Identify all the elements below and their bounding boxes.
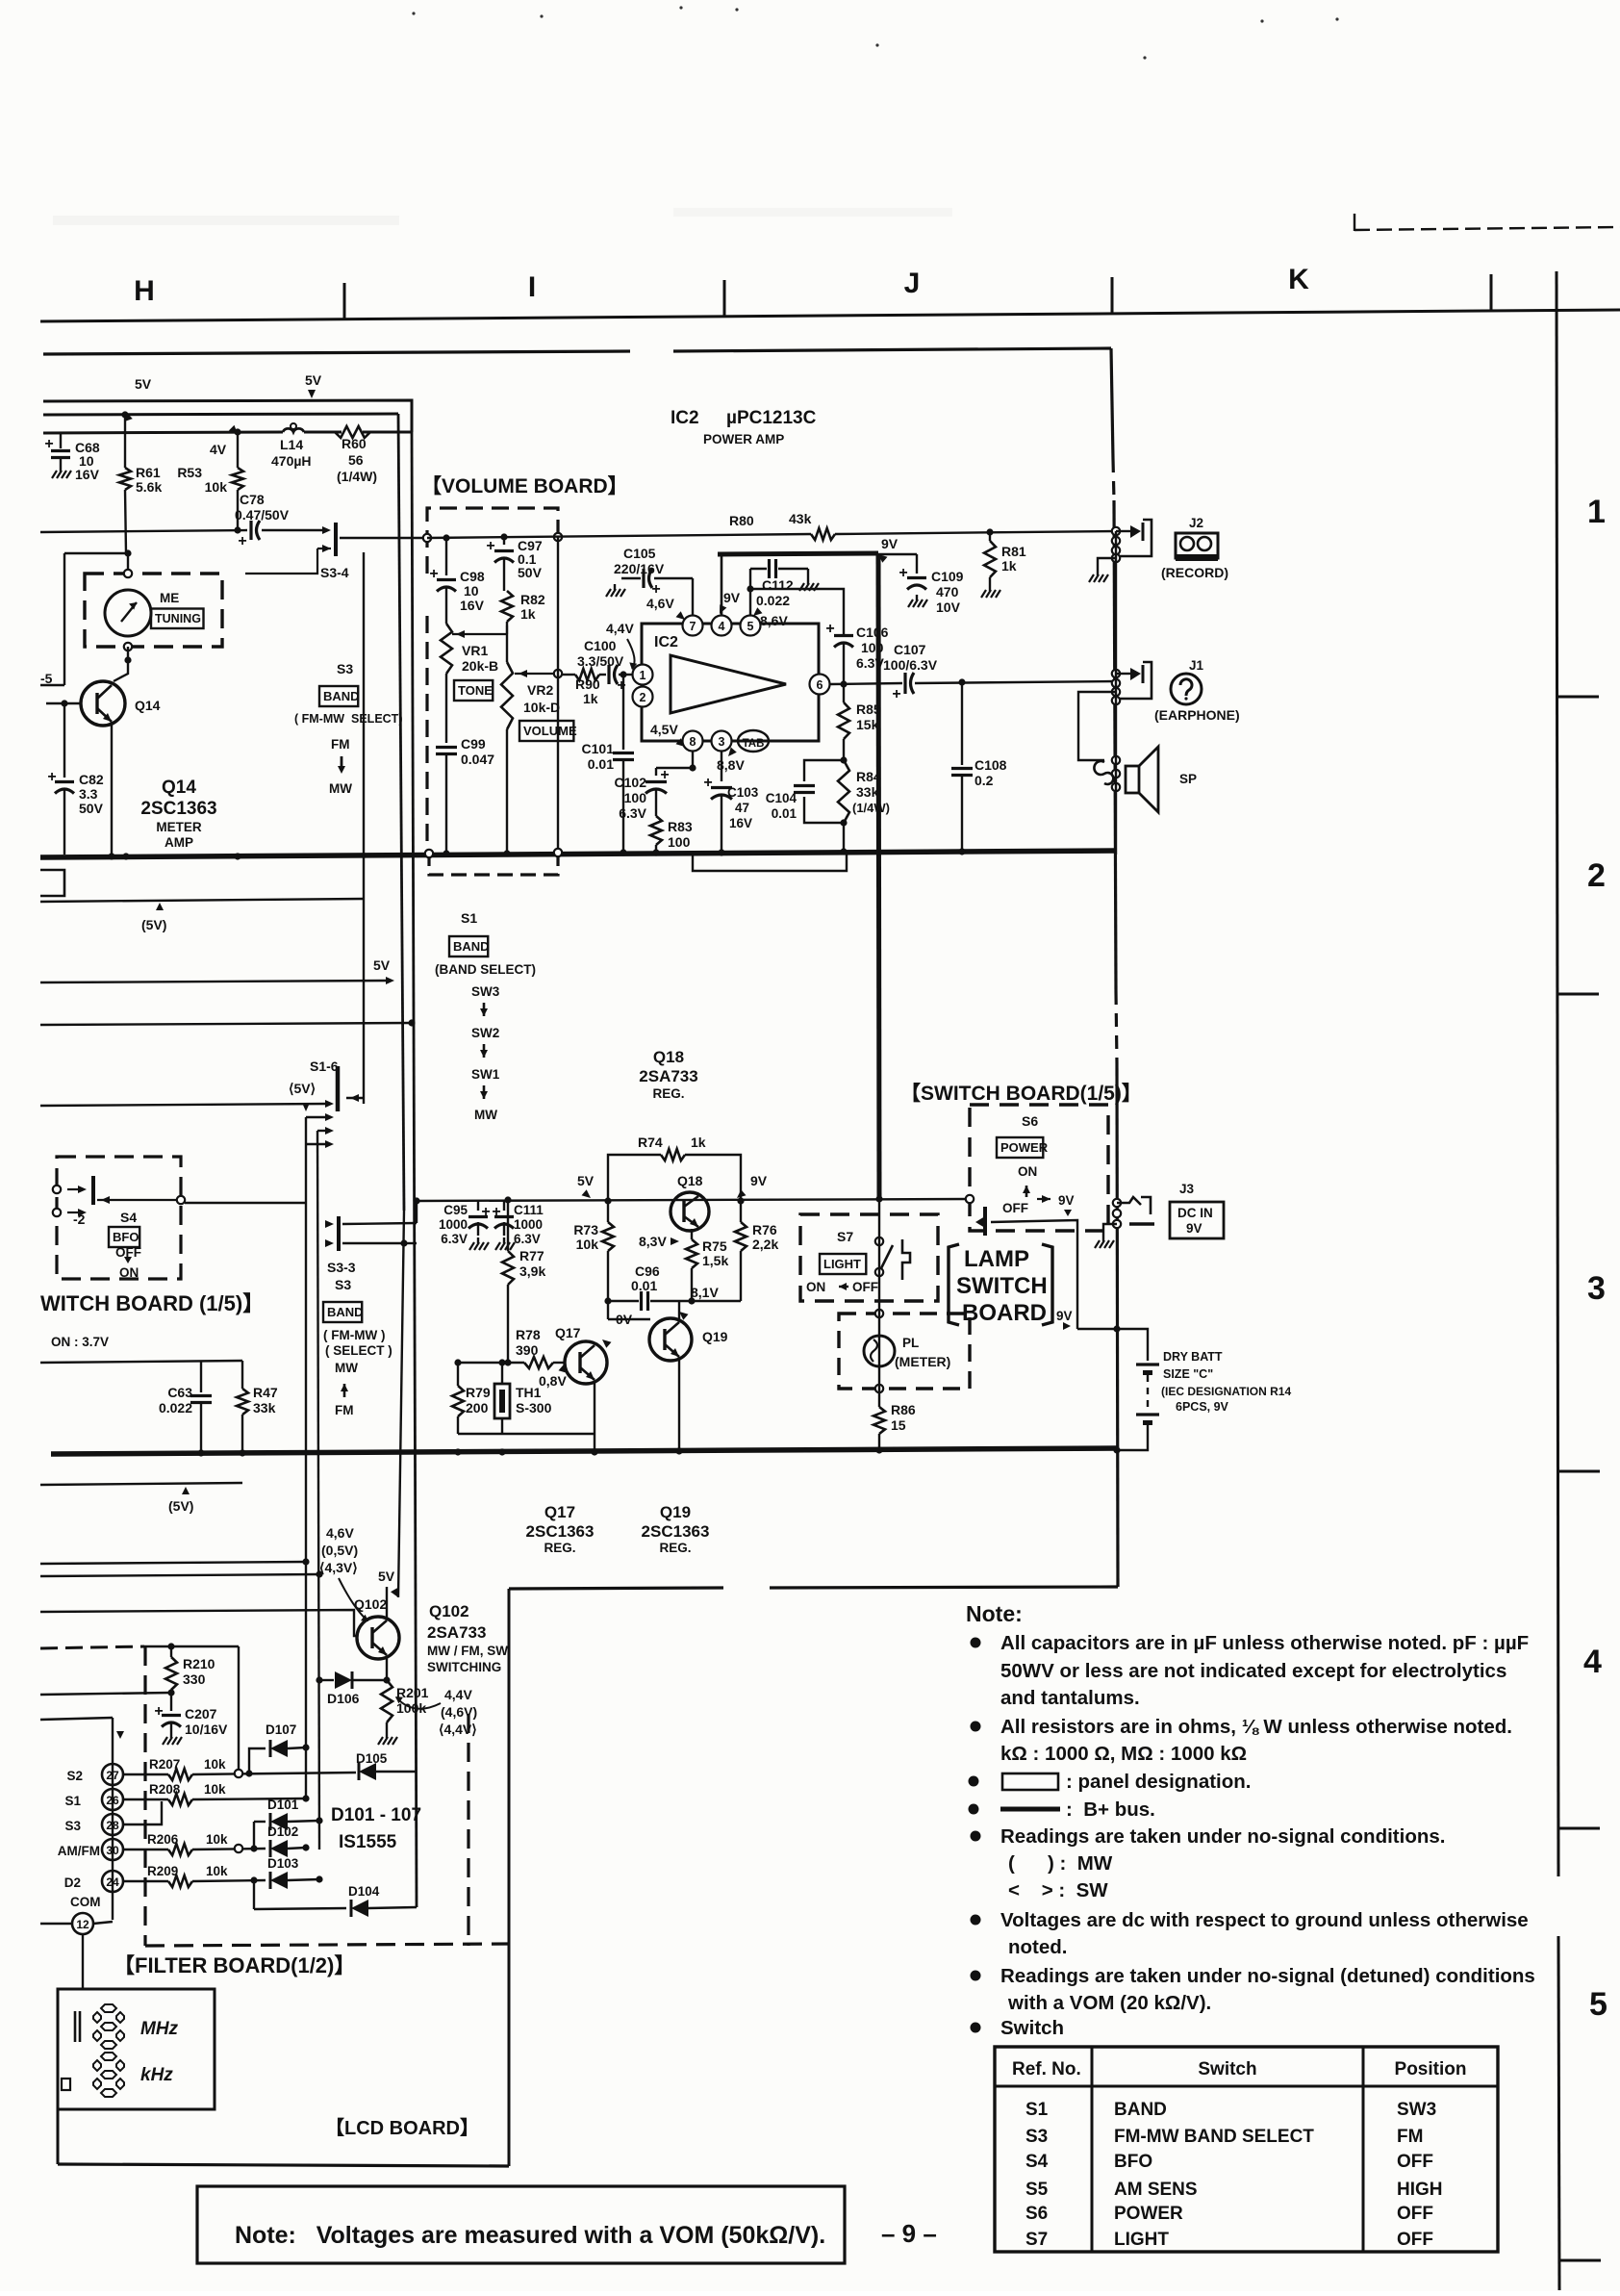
grid letter H (134, 275, 155, 307)
switch S6 (966, 1195, 1077, 1329)
resistor R78 (508, 1357, 553, 1368)
svg-text:390: 390 (516, 1342, 539, 1358)
svg-text:(EARPHONE): (EARPHONE) (1154, 707, 1240, 723)
label J3 (1179, 1182, 1195, 1196)
svg-text:2SC1363: 2SC1363 (526, 1522, 595, 1541)
svg-text:ME: ME (160, 591, 179, 605)
note b6 l2 (1008, 1936, 1068, 1958)
page number (881, 2219, 937, 2248)
wire S7-PL rail (875, 1195, 882, 1407)
svg-text:8: 8 (690, 735, 696, 749)
boxed POWER (997, 1137, 1049, 1158)
label C108 0.2 (975, 757, 1007, 788)
svg-text:Q102: Q102 (354, 1596, 387, 1612)
wire pin5 to C106 (0, 0, 1, 1)
ground C95 (469, 1237, 489, 1250)
schematic bottom-right boundary wire (509, 1587, 1118, 1589)
ground C207 (163, 1732, 182, 1745)
table hdr Position (1395, 2059, 1467, 2079)
label C99 0.047 (461, 736, 494, 767)
svg-text:OFF: OFF (1002, 1201, 1028, 1215)
svg-text:R75: R75 (702, 1238, 727, 1254)
svg-text:µPC1213C: µPC1213C (726, 408, 817, 428)
svg-text:【SWITCH BOARD(1/5)】: 【SWITCH BOARD(1/5)】 (900, 1083, 1142, 1105)
label C102 100 6.3V (615, 775, 647, 821)
potentiometer VR1 (441, 624, 452, 739)
label J1 (1189, 658, 1204, 673)
label C100 3.3/50V (577, 638, 624, 669)
svg-text:kΩ : 1000 Ω, MΩ : 1000 kΩ: kΩ : 1000 Ω, MΩ : 1000 kΩ (1000, 1743, 1247, 1765)
capacitor C106 (825, 621, 853, 684)
svg-text:10/16V: 10/16V (185, 1722, 228, 1737)
svg-text:3: 3 (719, 735, 725, 749)
svg-text:IS1555: IS1555 (339, 1832, 397, 1852)
resistor R77 (502, 1196, 514, 1365)
svg-text:0.01: 0.01 (588, 756, 614, 772)
meter node top (124, 553, 132, 577)
svg-text:56: 56 (348, 452, 364, 468)
label 5V h1063 (373, 957, 391, 973)
svg-text:S1: S1 (461, 910, 477, 926)
svg-text:S4: S4 (1025, 2152, 1049, 2172)
capacitor C97 (486, 537, 514, 591)
svg-text:S3: S3 (335, 1277, 351, 1292)
svg-text:BAND: BAND (1114, 2100, 1167, 2120)
wire 9V main h (413, 1197, 970, 1223)
svg-text:6.3V: 6.3V (619, 805, 646, 821)
svg-text:R206: R206 (147, 1832, 179, 1847)
svg-text:24: 24 (106, 1875, 119, 1889)
svg-text:16V: 16V (729, 816, 752, 830)
label LAMP SWITCH BOARD (949, 1244, 1052, 1326)
label FM S3 (335, 1403, 354, 1417)
ground bus junctions (197, 1446, 882, 1456)
resistor R76 (735, 1201, 747, 1301)
svg-text:noted.: noted. (1008, 1936, 1068, 1958)
ground J3 (1095, 1224, 1117, 1248)
svg-text:S5: S5 (1025, 2180, 1049, 2200)
svg-text:OFF: OFF (852, 1280, 878, 1294)
svg-text:(5V): (5V) (141, 917, 166, 932)
label (5V) a (141, 903, 166, 932)
wire q19 coll (678, 1301, 680, 1321)
svg-text:S1-6: S1-6 (310, 1059, 339, 1074)
svg-text:Voltages are dc with respect t: Voltages are dc with respect to ground u… (1000, 1909, 1529, 1931)
svg-text:+: + (238, 533, 246, 549)
transistor Q102 (357, 1617, 399, 1659)
wire C102 link (656, 764, 696, 771)
label R74 1k (638, 1135, 706, 1150)
table row S5 (1025, 2180, 1443, 2200)
label D104 (348, 1884, 380, 1899)
wire q17 emit (594, 1382, 595, 1450)
svg-text:8,3V: 8,3V (639, 1234, 667, 1249)
svg-text:S3: S3 (337, 661, 353, 676)
svg-text:C102: C102 (615, 775, 647, 790)
resistor R47 (237, 1389, 248, 1452)
label 9V pin4 (720, 590, 741, 614)
capacitor C78 (238, 521, 260, 549)
svg-text:+: + (899, 565, 907, 581)
svg-text:MW: MW (329, 781, 352, 796)
label 0.8V (539, 1365, 568, 1389)
label C78 0.47/50V (235, 492, 290, 523)
label Q14 2SC1363 METER AMP (140, 778, 216, 850)
svg-text:REG.: REG. (659, 1541, 691, 1555)
wire h1019 (40, 977, 394, 984)
schematic right boundary wire (1111, 348, 1118, 1587)
svg-text:Switch: Switch (1198, 2059, 1256, 2079)
svg-text:FM: FM (335, 1403, 354, 1417)
lcd display box (58, 1989, 215, 2109)
capacitor C95 (468, 1200, 491, 1236)
svg-text:+: + (486, 538, 494, 554)
label R86 15 (891, 1402, 916, 1433)
svg-text:5V: 5V (378, 1569, 395, 1584)
svg-text:DRY BATT: DRY BATT (1163, 1350, 1223, 1364)
meter node bottom (114, 643, 132, 681)
svg-text:R210: R210 (183, 1656, 215, 1671)
label ME (160, 591, 179, 605)
junction C97 top (500, 533, 507, 540)
right tick row3-4 (1558, 1470, 1600, 1473)
switch table header line (995, 2085, 1498, 2088)
svg-text:TH1: TH1 (516, 1385, 542, 1400)
lcd dot (62, 2079, 70, 2090)
svg-text:33k: 33k (253, 1400, 276, 1416)
label R73 10k (573, 1222, 598, 1252)
capacitor C98 (429, 538, 456, 624)
label J2 (1189, 516, 1203, 530)
note b7 l2 (1007, 1992, 1211, 2014)
lcd digit partial (75, 2011, 80, 2042)
svg-text:10V: 10V (936, 600, 961, 615)
bottom note box (197, 2186, 845, 2263)
svg-text:6PCS, 9V: 6PCS, 9V (1176, 1400, 1229, 1414)
svg-text:10k: 10k (576, 1237, 599, 1252)
svg-text:S3: S3 (64, 1819, 81, 1833)
svg-text:R84: R84 (856, 769, 881, 784)
svg-text:Q17: Q17 (544, 1503, 575, 1521)
svg-text:S3-4: S3-4 (320, 565, 349, 580)
svg-text:MW / FM, SW: MW / FM, SW (427, 1644, 508, 1658)
svg-text:Q19: Q19 (660, 1503, 691, 1521)
right tick bottom (1559, 2259, 1601, 2262)
svg-text:H: H (134, 275, 155, 307)
svg-text:100: 100 (861, 640, 884, 655)
svg-text:28: 28 (106, 1819, 119, 1832)
row number 4 (1583, 1644, 1602, 1680)
boxed BFO (109, 1227, 139, 1247)
svg-text:C98: C98 (460, 569, 485, 584)
svg-text:【FILTER BOARD(1/2)】: 【FILTER BOARD(1/2)】 (114, 1953, 355, 1977)
svg-text:SP: SP (1179, 772, 1197, 786)
diode D105 (359, 1763, 417, 1780)
wire q17 coll (608, 1301, 650, 1319)
svg-text:100: 100 (624, 790, 647, 805)
grid tick top 2 (723, 280, 726, 316)
label 4.6V (646, 596, 685, 620)
table row S3 (1025, 2127, 1423, 2147)
svg-text:S7: S7 (837, 1229, 853, 1244)
top-right corner mark (1354, 214, 1620, 231)
label R84 33k (1/4W) (852, 769, 890, 815)
svg-text:3,9k: 3,9k (519, 1263, 545, 1279)
svg-text:COM: COM (70, 1895, 101, 1909)
junction pin1 (620, 671, 626, 677)
svg-text:S6: S6 (1025, 2204, 1048, 2224)
svg-text:R79: R79 (466, 1385, 491, 1400)
svg-text:ON: ON (806, 1280, 825, 1294)
wire h1147 (40, 1104, 328, 1106)
lamp box PL (839, 1314, 970, 1389)
right tick row2-3 (1557, 993, 1599, 996)
label 8.3V (639, 1234, 679, 1249)
svg-text:50V: 50V (79, 801, 104, 816)
ground C109 (908, 595, 927, 607)
label R83 100 (668, 819, 693, 850)
svg-text:J: J (904, 268, 921, 299)
label C95 1000 6.3V (439, 1203, 468, 1246)
svg-text:FM-MW BAND SELECT: FM-MW BAND SELECT (1114, 2127, 1314, 2147)
capacitor C103 (703, 752, 732, 851)
wire q18 wires (604, 1297, 741, 1304)
svg-text:OFF: OFF (1397, 2230, 1433, 2250)
svg-text:2: 2 (1587, 857, 1606, 894)
svg-text:PL: PL (902, 1336, 919, 1350)
ground bus (51, 1448, 1117, 1454)
svg-text:4: 4 (1583, 1644, 1602, 1680)
label 5V q102 (378, 1569, 398, 1597)
wire r79 th1 gnd (458, 1363, 595, 1434)
junction pin6 (840, 680, 847, 687)
note b3 (969, 1771, 1252, 1793)
label D107 (266, 1722, 296, 1737)
label (EARPHONE) (1154, 707, 1240, 723)
label 9V at bus (878, 536, 899, 563)
label R47 33k (253, 1385, 278, 1416)
pin S1 26 (64, 1789, 123, 1810)
capacitor C99 (436, 739, 457, 851)
label R81 1k (1001, 544, 1026, 574)
transistor Q18 (671, 1192, 709, 1231)
wire Q14 emitter (111, 722, 113, 855)
svg-text:1000: 1000 (514, 1217, 543, 1232)
svg-text:C112: C112 (762, 577, 794, 593)
scan specks (412, 6, 1338, 59)
svg-text:9V: 9V (750, 1173, 768, 1188)
jack J3 (1113, 1197, 1154, 1228)
wire pin2 stub (0, 0, 1, 1)
wire v305 (0, 0, 1, 1)
vr1 wiper (452, 625, 507, 638)
label PL (METER) (895, 1336, 950, 1369)
lcd board bottom (58, 2164, 509, 2166)
junction q18 c (604, 1197, 744, 1204)
svg-text:R47: R47 (253, 1385, 278, 1400)
capacitor C112 (750, 559, 808, 578)
svg-text:C95: C95 (443, 1203, 468, 1217)
svg-text:R73: R73 (573, 1222, 598, 1237)
svg-text:16V: 16V (460, 598, 485, 613)
svg-text:220/16V: 220/16V (614, 561, 665, 576)
svg-text:DC IN: DC IN (1177, 1206, 1213, 1220)
wire C106 top link (747, 585, 844, 635)
capacitor C107 (892, 673, 1116, 702)
label 9V q18 (737, 1173, 768, 1198)
svg-text:50V: 50V (518, 565, 543, 580)
svg-text:D101: D101 (267, 1798, 299, 1812)
wire v414 end (398, 1211, 404, 1597)
switch S1-6 (325, 1066, 364, 1111)
right tick row4-5 (1558, 1827, 1600, 1830)
pin 5 (741, 616, 761, 636)
resistor R81 (984, 532, 996, 585)
label 5V q18 (577, 1173, 595, 1198)
svg-text:C101: C101 (582, 741, 615, 756)
note panel rect symbol (1002, 1773, 1058, 1790)
svg-text:FM: FM (331, 737, 350, 752)
ground J2 (1089, 570, 1108, 582)
label 9V S6 (1058, 1193, 1075, 1216)
svg-text:SW3: SW3 (1397, 2100, 1436, 2120)
label (FM-MW) (SELECT) (323, 1328, 392, 1358)
pin 2 (633, 687, 653, 707)
pin S3 28 (64, 1814, 123, 1835)
wire Q14 base (46, 700, 81, 706)
svg-text:6.3V: 6.3V (441, 1232, 468, 1246)
note b1 l2 (1000, 1660, 1506, 1682)
note b5 l3 (1008, 1879, 1108, 1901)
svg-text:R81: R81 (1001, 544, 1026, 559)
svg-text:Readings are taken under no-si: Readings are taken under no-signal (detu… (1000, 1965, 1535, 1987)
svg-text:0,8V: 0,8V (539, 1373, 567, 1389)
label 4.5V (650, 722, 685, 747)
boxed TONE (454, 680, 493, 701)
pin D2 24 (64, 1871, 123, 1892)
right tick row1-2 (1557, 696, 1599, 699)
svg-text:4V: 4V (210, 442, 227, 457)
boxed BAND S1 (449, 936, 490, 957)
svg-text:S2: S2 (66, 1769, 83, 1783)
svg-text:-5: -5 (40, 671, 53, 686)
pin TAB (738, 730, 769, 752)
svg-text:R76: R76 (752, 1222, 777, 1237)
svg-text:AM/FM: AM/FM (58, 1844, 100, 1858)
svg-text:(RECORD): (RECORD) (1161, 565, 1228, 580)
label ON S6 (1018, 1164, 1037, 1197)
svg-text:5V: 5V (305, 372, 322, 388)
wire q102 coll (386, 1587, 388, 1619)
note b4 (969, 1799, 1155, 1821)
junction R61 top (121, 411, 128, 418)
svg-text:1,5k: 1,5k (702, 1253, 728, 1268)
ground R201 (378, 1732, 397, 1745)
svg-text:5V: 5V (373, 957, 391, 973)
svg-text:S1: S1 (1025, 2100, 1049, 2120)
switch S4 (53, 1176, 185, 1216)
wire COM drop (82, 1934, 84, 1989)
label SP (1179, 772, 1197, 786)
resistor R209 row (123, 1875, 266, 1887)
label R60 56 (1/4W) (337, 436, 377, 484)
q102 vol arrow (395, 1696, 441, 1709)
label D106 (327, 1691, 360, 1706)
label 4.4V (606, 621, 637, 670)
capacitor C102 (645, 767, 670, 816)
wire h1063 (40, 1019, 416, 1026)
lcd digit 2 (93, 2053, 124, 2097)
label Q14 (135, 698, 161, 713)
svg-text:and tantalums.: and tantalums. (1000, 1687, 1140, 1709)
filter board right dashed (467, 1714, 469, 1946)
svg-text:LIGHT: LIGHT (1114, 2230, 1169, 2250)
svg-text:9V: 9V (1058, 1193, 1075, 1208)
label 4.4V(4.6V)<4.4V> (439, 1687, 477, 1737)
svg-text:470: 470 (936, 584, 959, 600)
label (RECORD) (1161, 565, 1228, 580)
svg-text:(5V): (5V) (168, 1498, 193, 1514)
label S4 (120, 1210, 137, 1225)
svg-text:IC2: IC2 (671, 408, 699, 428)
ground C105 (606, 584, 625, 597)
svg-text:REG.: REG. (544, 1541, 575, 1555)
resistor R208 row (123, 1794, 310, 1805)
label C105 220/16V (614, 546, 665, 576)
note b2 l1 (971, 1716, 1513, 1738)
svg-text:6.3V: 6.3V (514, 1232, 541, 1246)
svg-text:26: 26 (106, 1794, 119, 1807)
label Q102 2SA733 (427, 1602, 508, 1674)
svg-text:SIZE "C": SIZE "C" (1163, 1367, 1213, 1381)
label C112 0.022 (756, 577, 794, 608)
pin 3 (712, 731, 732, 752)
grid tick top 1 (343, 283, 346, 319)
svg-text:S3-3: S3-3 (327, 1260, 356, 1275)
svg-text:+: + (492, 1204, 500, 1220)
label R79 200 (466, 1385, 491, 1416)
svg-text:1: 1 (1587, 494, 1606, 530)
svg-text:50WV or less are not indicated: 50WV or less are not indicated except fo… (1000, 1660, 1506, 1682)
row number 1 (1587, 494, 1606, 530)
svg-text:D102: D102 (267, 1824, 298, 1839)
inductor L14 (283, 423, 304, 432)
svg-text:R74: R74 (638, 1135, 663, 1150)
table hdr Switch (1198, 2059, 1256, 2079)
svg-text:R80: R80 (729, 513, 754, 528)
label R206 10k (147, 1832, 228, 1847)
svg-text:Q14: Q14 (162, 778, 196, 798)
label S1 (461, 910, 477, 926)
diode D101 (254, 1813, 323, 1830)
label D105 (356, 1751, 388, 1766)
label S3-3 (327, 1260, 356, 1275)
capacitor C9 left (0, 0, 1, 1)
svg-text:16V: 16V (75, 467, 100, 482)
label R75 1.5k (702, 1238, 728, 1268)
svg-text:Q14: Q14 (135, 698, 161, 713)
svg-text:S7: S7 (1025, 2230, 1048, 2250)
table row S4 (1025, 2152, 1433, 2172)
label Q102 (354, 1596, 387, 1612)
svg-text:4,6V: 4,6V (326, 1525, 354, 1541)
capacitor C207 (154, 1693, 181, 1732)
label POWER AMP (703, 432, 784, 446)
label R53 10k (177, 465, 227, 495)
svg-text:7: 7 (690, 620, 696, 633)
svg-text:J2: J2 (1189, 516, 1203, 530)
svg-text:5V: 5V (577, 1173, 595, 1188)
